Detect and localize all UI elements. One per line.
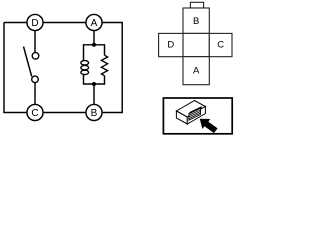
wire junction down to B <box>93 84 95 104</box>
inductor L1 <box>81 61 89 75</box>
meter A <box>86 14 102 30</box>
box net: center face <box>183 33 209 56</box>
svg-text:B: B <box>91 108 98 119</box>
icon frame <box>163 98 232 134</box>
svg-text:D: D <box>167 40 174 51</box>
icon connector drawer front with vents <box>189 108 201 120</box>
meter D <box>27 14 43 30</box>
box net: face B <box>183 8 209 33</box>
junction node bottom <box>92 82 96 86</box>
icon arrow <box>200 119 217 133</box>
wire top-left (corner to D) <box>4 22 27 24</box>
icon 3D box top face <box>176 101 205 118</box>
box net: face C <box>209 33 232 56</box>
box net: face A <box>183 57 209 85</box>
wire D to A <box>44 22 86 24</box>
box net: face D <box>159 33 183 56</box>
icon 3D box right face <box>187 107 205 125</box>
wire D to switch top contact <box>34 31 36 53</box>
wire switch bottom contact to C <box>34 83 36 105</box>
junction node top <box>92 43 96 47</box>
meter C <box>27 104 43 120</box>
wire A to top-right corner and down right side <box>103 23 123 113</box>
svg-text:A: A <box>91 18 98 29</box>
wire parallel-top rail <box>84 45 105 61</box>
svg-text:C: C <box>31 108 38 119</box>
box net: tab flap <box>190 2 203 8</box>
icon connector drawer top strip <box>189 107 202 114</box>
wire A down to junction <box>93 31 95 45</box>
icon 3D box left front face <box>176 111 187 124</box>
wire C to bottom-left corner and up left side <box>4 23 26 113</box>
svg-text:A: A <box>193 66 200 77</box>
wire B to C <box>44 112 86 114</box>
resistor R1 <box>101 55 107 75</box>
svg-text:C: C <box>217 40 224 51</box>
svg-text:B: B <box>193 16 199 27</box>
meter B <box>86 104 102 120</box>
switch S1 <box>24 47 39 83</box>
svg-text:D: D <box>31 18 38 29</box>
wire parallel-bottom rail <box>84 75 105 85</box>
